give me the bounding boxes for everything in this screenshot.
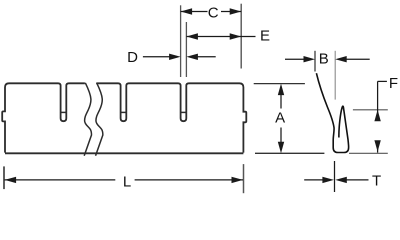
comb strip body right portion (side view, right of break) [96, 83, 246, 152]
dim T extension line [334, 161, 336, 192]
dim B extension line 1 [314, 51, 316, 72]
dim L arrows and line [5, 177, 243, 183]
dim A extension line top [254, 83, 305, 85]
dim A extension line bottom [255, 152, 324, 154]
svg-text:F: F [389, 75, 398, 92]
svg-text:C: C [208, 4, 219, 21]
comb strip body left portion (side view, left of break) [2, 83, 85, 152]
dim C extension line 1 [180, 5, 182, 77]
svg-text:L: L [123, 174, 131, 191]
dim B extension line 2 [334, 51, 336, 100]
dim L extension line left [3, 166, 5, 189]
dim F arrows and line [374, 81, 380, 152]
break line right [96, 83, 103, 156]
slot 1 web tick [61, 111, 67, 113]
pin section profile (hooked blade) [316, 73, 348, 152]
dim C arrows and line [181, 8, 242, 14]
dim L extension line right [243, 164, 245, 193]
svg-text:A: A [275, 109, 285, 126]
strip bottom edge [5, 152, 243, 154]
dim A arrows and line [278, 84, 284, 154]
slot 2 web tick [121, 111, 127, 113]
svg-text:E: E [260, 27, 270, 44]
svg-text:T: T [372, 173, 381, 190]
svg-text:D: D [127, 49, 138, 66]
dim B arrows and line [285, 56, 370, 62]
dim D extension line 2 [185, 22, 187, 77]
dim F extension line top [353, 109, 388, 111]
dim E arrows and line [186, 33, 255, 39]
dim F leader and label [378, 80, 387, 82]
dim C extension line 3 (strip right end) [240, 4, 242, 69]
dim F extension line bottom [349, 152, 388, 154]
svg-text:B: B [319, 50, 329, 67]
slot 3 web tick [181, 111, 187, 113]
break line left [84, 83, 91, 156]
dim D leader and arrows [143, 54, 216, 60]
dim T arrows and line [304, 177, 368, 183]
